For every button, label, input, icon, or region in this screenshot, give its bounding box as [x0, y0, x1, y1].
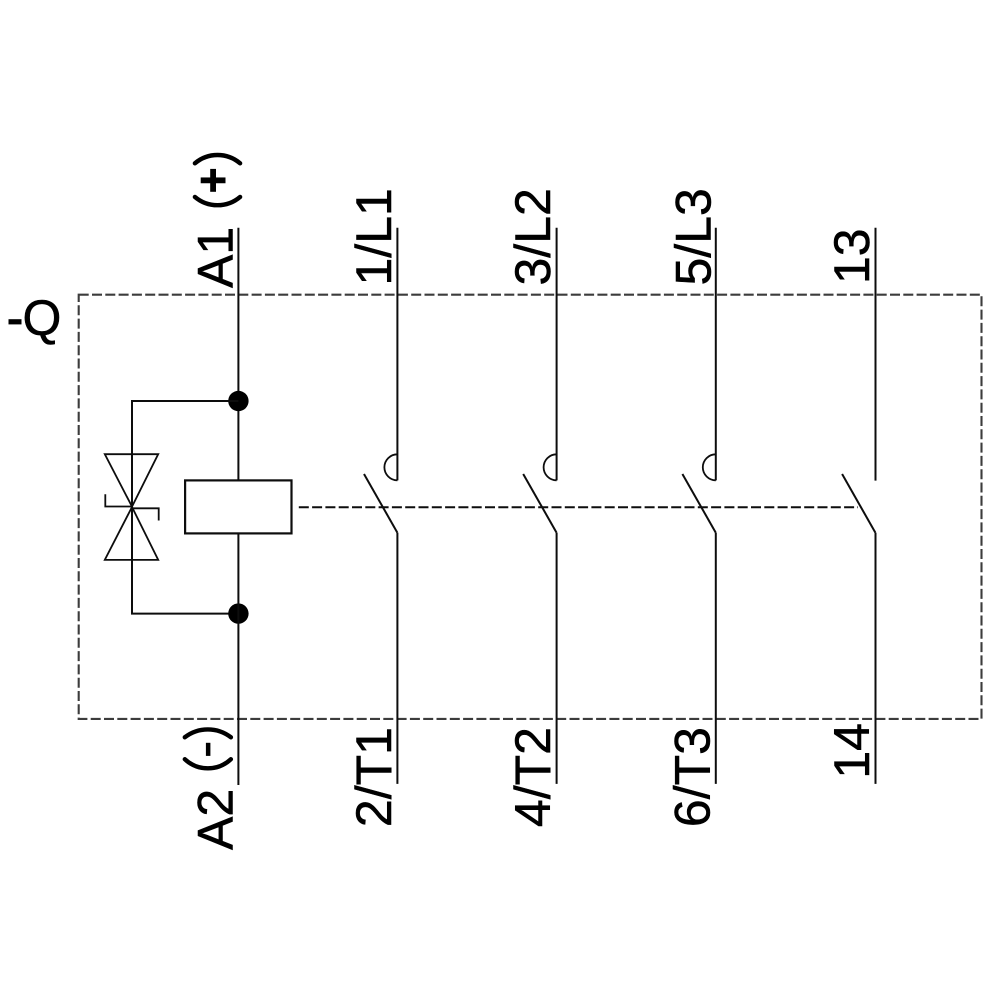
pole 3: moving contact blade	[682, 474, 715, 533]
aux contact: moving blade	[842, 474, 875, 533]
pole 1: terminal 2/T1 wire	[396, 533, 398, 784]
pole 1: fixed contact arc	[384, 454, 397, 480]
label A1 (+)	[187, 155, 243, 288]
terminal A1 wire	[237, 228, 239, 481]
suppressor V1 (bidirectional TVS) top triangle	[105, 454, 158, 506]
svg-text:13: 13	[824, 228, 880, 284]
coil K (operating coil rectangle)	[185, 480, 291, 533]
pole 2: moving contact blade	[523, 474, 556, 533]
node: top junction dot	[228, 391, 248, 411]
svg-text:Q: Q	[23, 290, 62, 346]
label 3/L2	[505, 188, 561, 285]
pole 3: fixed contact arc	[703, 454, 716, 480]
pole 2: terminal 3/L2 wire	[556, 228, 558, 481]
aux contact: terminal 13 wire	[875, 228, 877, 481]
pole 1: terminal 1/L1 wire	[396, 228, 398, 481]
label -Q	[9, 290, 62, 346]
svg-text:5/L3: 5/L3	[665, 188, 721, 285]
label 4/T2	[505, 727, 561, 827]
node: bottom junction dot	[228, 603, 248, 623]
label 13	[824, 228, 880, 284]
wire: suppressor branch (top, left, bottom)	[132, 401, 238, 614]
pole 2: fixed contact arc	[544, 454, 557, 480]
suppressor V1 bottom triangle	[105, 507, 158, 560]
label 14	[824, 723, 880, 779]
pole 3: terminal 6/T3 wire	[715, 533, 717, 784]
svg-text:A2: A2	[187, 789, 243, 850]
svg-text:2/T1: 2/T1	[346, 727, 402, 827]
svg-text:3/L2: 3/L2	[505, 188, 561, 285]
svg-text:1/L1: 1/L1	[346, 188, 402, 285]
svg-text:14: 14	[824, 723, 880, 779]
label 5/L3	[665, 188, 721, 285]
aux contact: terminal 14 wire	[875, 533, 877, 784]
svg-text:4/T2: 4/T2	[505, 727, 561, 827]
pole 2: terminal 4/T2 wire	[556, 533, 558, 784]
pole 3: terminal 5/L3 wire	[715, 228, 717, 481]
terminal A2 wire	[237, 533, 239, 785]
label A2 (-)	[185, 729, 244, 850]
suppressor V1 zener Z-bar	[105, 494, 158, 520]
label 1/L1	[346, 188, 402, 285]
svg-text:6/T3: 6/T3	[664, 727, 720, 827]
contactor -Q dashed boundary	[79, 295, 982, 719]
label 2/T1	[346, 727, 402, 827]
label 6/T3	[664, 727, 720, 827]
actuator dashed link from coil to contacts	[299, 506, 858, 508]
svg-text:A1: A1	[187, 227, 243, 288]
pole 1: moving contact blade	[364, 474, 397, 533]
